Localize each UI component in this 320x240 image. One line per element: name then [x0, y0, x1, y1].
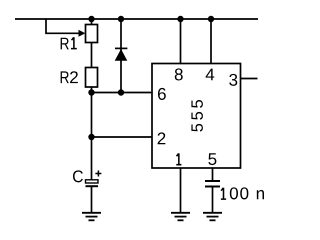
capacitor 100n plates: [205, 180, 220, 182]
capacitor C bottom plate: [86, 185, 99, 187]
wire top supply rail: [15, 18, 258, 20]
wire node down to pin 2 node: [91, 93, 93, 138]
wire R2 bottom lead: [91, 87, 93, 93]
label R1: [61, 38, 69, 50]
label C: [73, 170, 83, 182]
node dot R2-pin6: [88, 89, 94, 95]
pin 8 label: [175, 68, 183, 80]
resistor R2: [86, 68, 98, 88]
node dot pin2-C: [88, 134, 94, 140]
pin 2 label: [158, 132, 166, 144]
wire capacitor 100n to ground: [212, 187, 214, 213]
ground under capacitor 100n: [203, 213, 222, 221]
node dot rail-diode: [118, 16, 124, 22]
node dot rail-R1: [88, 16, 94, 22]
node dot rail-pin4: [208, 16, 214, 22]
ground under C: [82, 213, 101, 221]
wire R1 wiper branch: [46, 19, 80, 33]
label R2: [61, 71, 69, 83]
wire node to pin 6: [92, 92, 153, 94]
pin 5 label: [208, 153, 216, 165]
label 555: [191, 100, 203, 132]
node dot diode-pin6: [118, 89, 124, 95]
capacitor C plus sign: [95, 171, 101, 177]
wire pin 8: [180, 19, 182, 64]
wire pin 3 stub: [241, 78, 258, 80]
wire node down to capacitor C: [91, 137, 93, 180]
wire node to pin 2: [92, 136, 153, 138]
wire pin 1 to ground: [180, 168, 182, 213]
pin 1 label: [176, 153, 181, 164]
resistor R1 potentiometer body: [86, 25, 98, 43]
capacitor C polarized top plate: [86, 180, 99, 183]
wire pin 4: [210, 19, 212, 64]
label 100 n: [221, 188, 226, 199]
R1 wiper arrow: [79, 30, 86, 37]
op-amp U1 555 box: [152, 64, 241, 169]
pin 6 label: [158, 88, 166, 100]
wire capacitor C to ground: [91, 187, 93, 213]
pin 4 label: [206, 69, 215, 81]
pin 3 label: [229, 74, 237, 86]
wire R1 to R2: [91, 43, 93, 68]
wire R1 top lead: [91, 19, 93, 25]
node dot rail-pin8: [177, 16, 183, 22]
ground under pin 1: [171, 213, 190, 221]
diode D1: [115, 47, 127, 49]
wire pin 5 to capacitor 100n: [212, 168, 214, 181]
wire diode vertical: [120, 19, 122, 93]
